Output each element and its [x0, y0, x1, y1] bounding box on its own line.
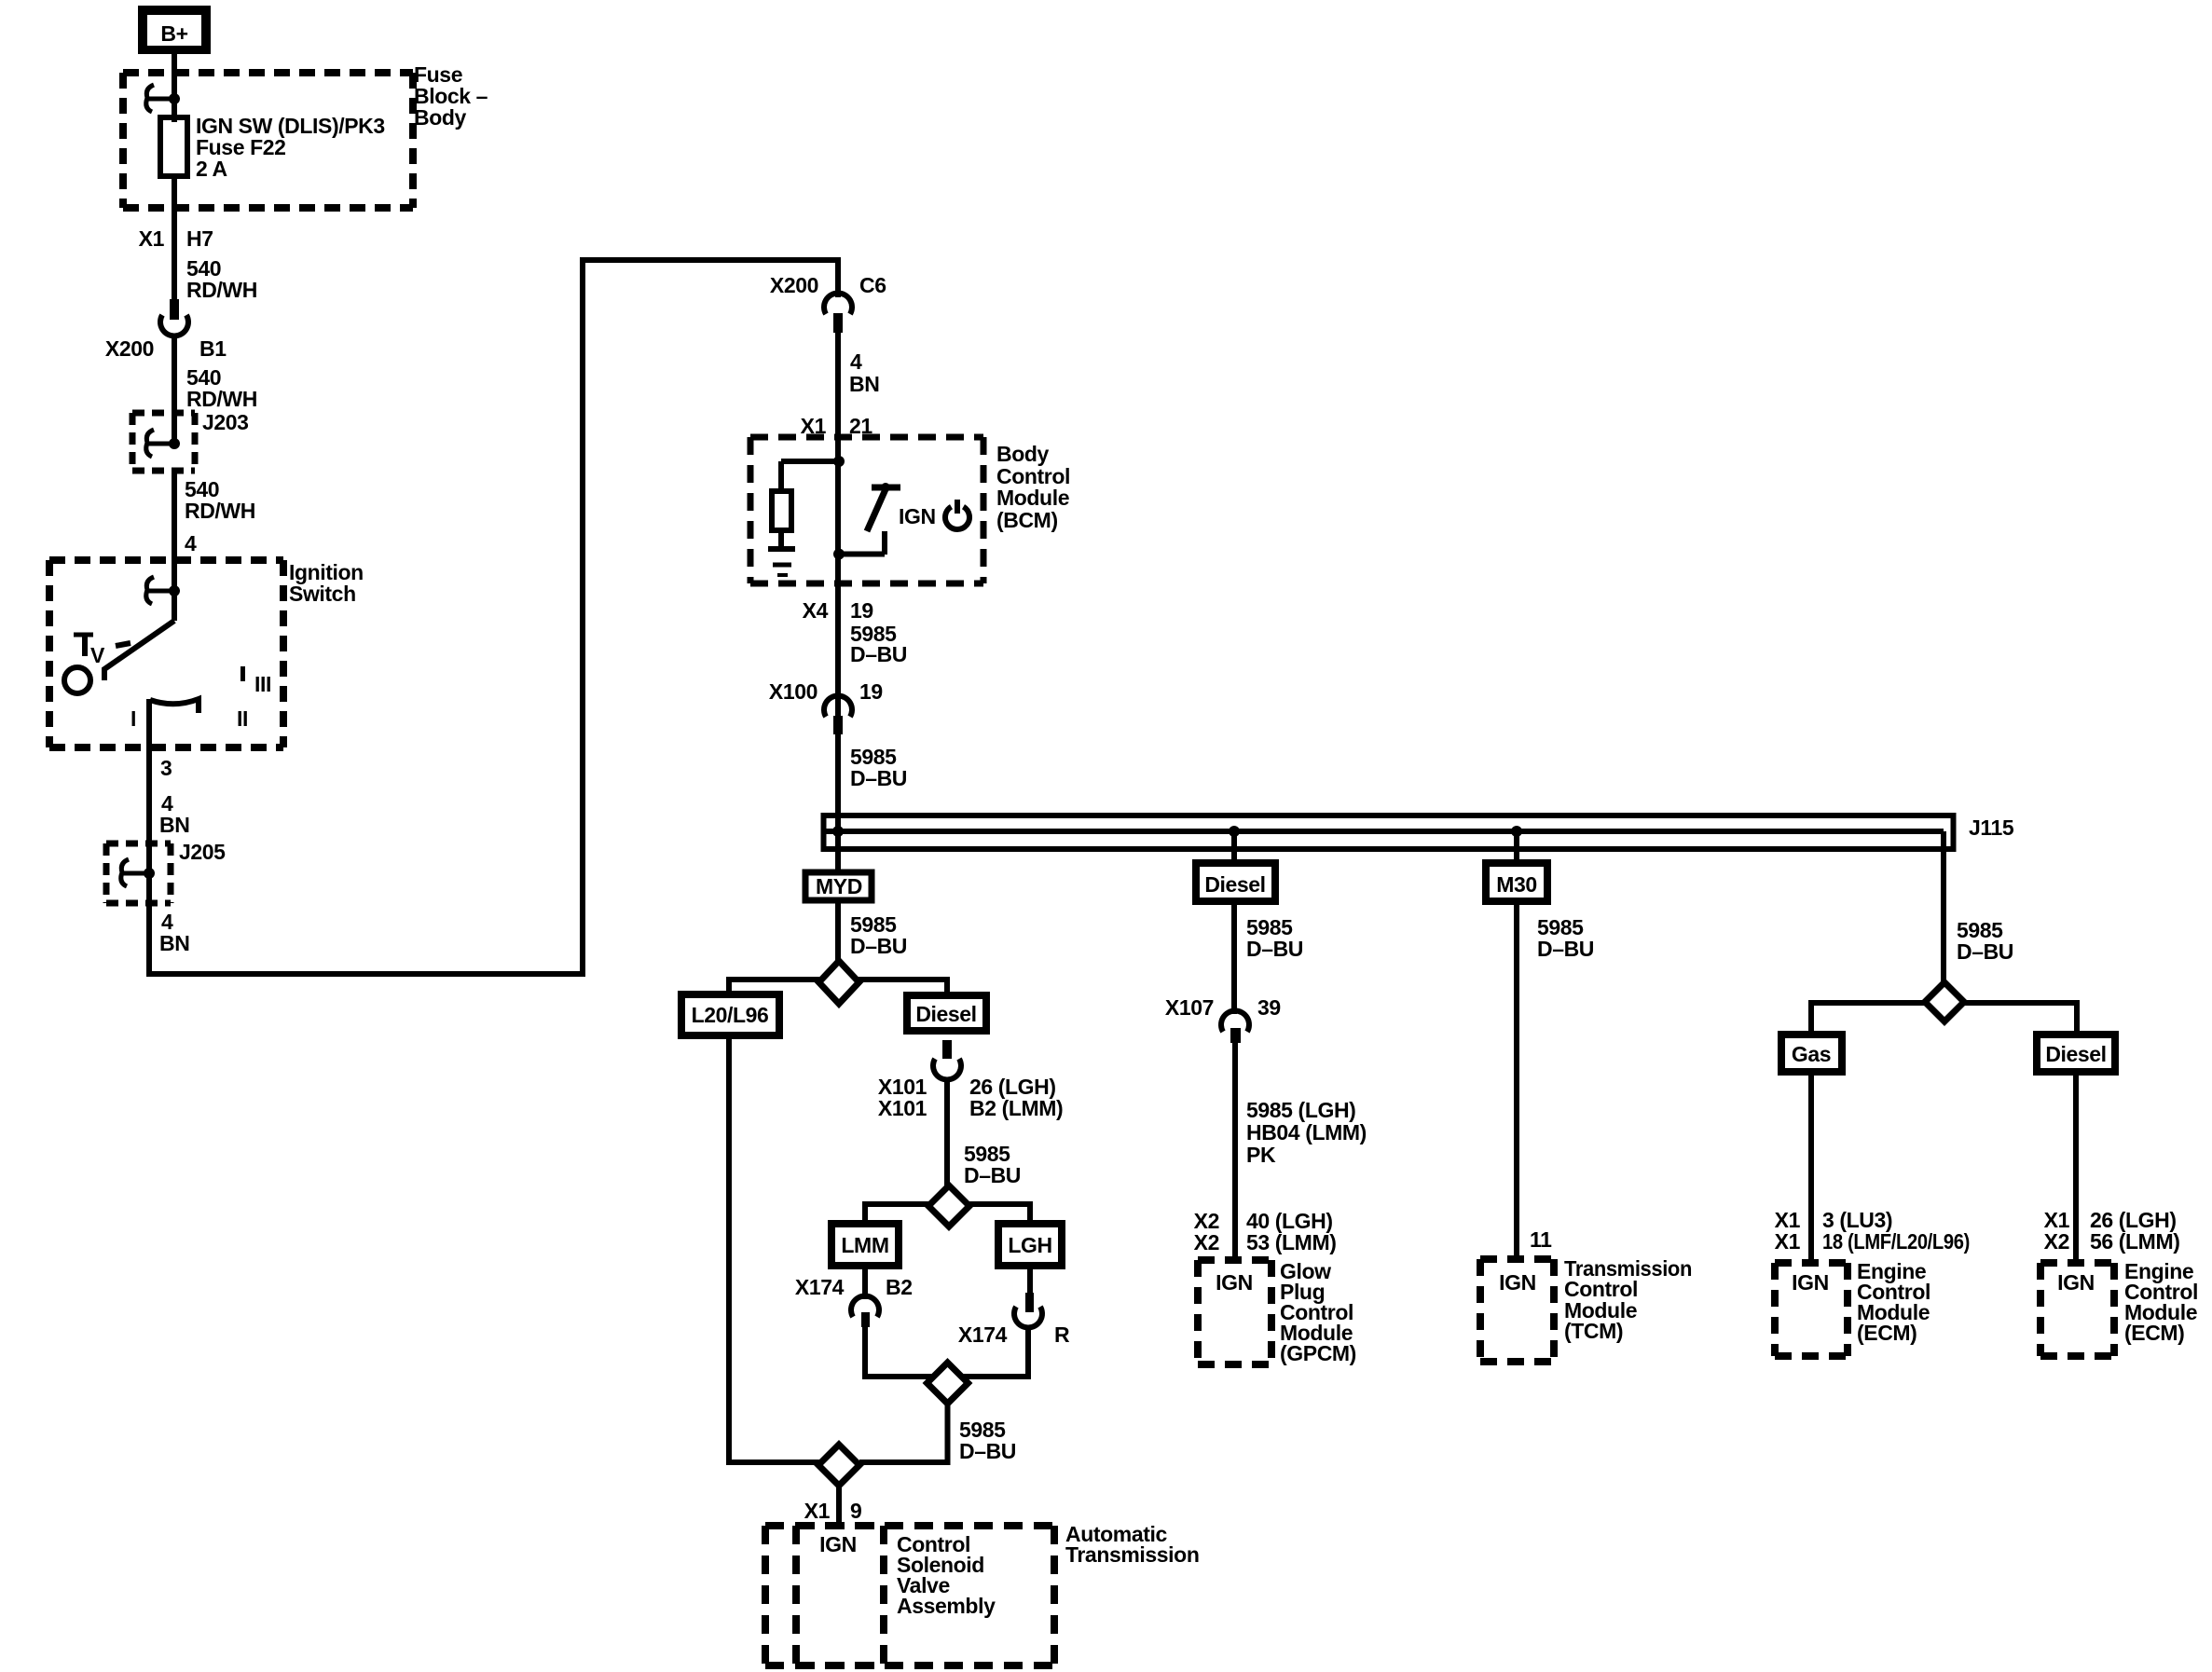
svg-text:Assembly: Assembly — [897, 1594, 996, 1618]
svg-text:IGN: IGN — [1499, 1270, 1536, 1295]
svg-text:II: II — [237, 706, 248, 731]
svg-text:R: R — [1054, 1323, 1070, 1347]
svg-text:19: 19 — [859, 679, 883, 704]
svg-text:LGH: LGH — [1008, 1233, 1051, 1257]
svg-text:Body: Body — [414, 105, 467, 130]
svg-text:J203: J203 — [202, 410, 249, 434]
svg-text:Gas: Gas — [1792, 1042, 1831, 1066]
svg-text:BN: BN — [849, 372, 879, 396]
svg-text:B2 (LMM): B2 (LMM) — [969, 1096, 1063, 1120]
svg-text:MYD: MYD — [816, 874, 862, 898]
svg-text:Body: Body — [996, 442, 1050, 466]
svg-text:III: III — [254, 672, 271, 696]
svg-text:Module: Module — [996, 486, 1069, 510]
svg-text:Diesel: Diesel — [2045, 1042, 2106, 1066]
svg-text:RD/WH: RD/WH — [186, 387, 257, 411]
svg-text:X200: X200 — [105, 336, 154, 361]
svg-text:BN: BN — [159, 813, 189, 837]
svg-text:X107: X107 — [1165, 995, 1214, 1020]
svg-text:4: 4 — [185, 531, 197, 555]
svg-text:X1: X1 — [139, 226, 165, 251]
svg-text:X1: X1 — [1775, 1229, 1801, 1254]
svg-text:M30: M30 — [1496, 872, 1537, 897]
svg-text:11: 11 — [1530, 1227, 1552, 1252]
svg-text:B+: B+ — [160, 21, 187, 46]
svg-text:RD/WH: RD/WH — [185, 499, 255, 523]
svg-text:Transmission: Transmission — [1065, 1542, 1199, 1567]
svg-text:D–BU: D–BU — [850, 766, 907, 790]
svg-text:(BCM): (BCM) — [996, 508, 1058, 532]
svg-text:18 (LMF/L20/L96): 18 (LMF/L20/L96) — [1822, 1229, 1970, 1254]
svg-text:D–BU: D–BU — [1537, 937, 1594, 961]
svg-text:(ECM): (ECM) — [2124, 1321, 2184, 1345]
svg-text:Diesel: Diesel — [1204, 872, 1265, 897]
svg-text:B1: B1 — [199, 336, 227, 361]
svg-text:D–BU: D–BU — [1957, 939, 2013, 964]
svg-text:X174: X174 — [958, 1323, 1008, 1347]
svg-text:(ECM): (ECM) — [1857, 1321, 1917, 1345]
svg-text:Switch: Switch — [289, 582, 356, 606]
svg-text:X174: X174 — [795, 1275, 845, 1299]
svg-text:C6: C6 — [859, 273, 886, 297]
svg-text:V: V — [90, 643, 105, 667]
svg-text:IGN: IGN — [1216, 1270, 1253, 1295]
svg-text:19: 19 — [850, 598, 873, 623]
svg-text:5985 (LGH): 5985 (LGH) — [1246, 1098, 1355, 1122]
svg-text:IGN: IGN — [819, 1532, 857, 1556]
svg-text:X2: X2 — [2044, 1229, 2069, 1254]
svg-text:(TCM): (TCM) — [1564, 1319, 1623, 1343]
svg-text:H7: H7 — [186, 226, 213, 251]
svg-text:D–BU: D–BU — [850, 934, 907, 958]
svg-text:HB04 (LMM): HB04 (LMM) — [1246, 1120, 1367, 1144]
svg-text:53 (LMM): 53 (LMM) — [1246, 1230, 1336, 1254]
svg-text:39: 39 — [1257, 995, 1281, 1020]
svg-text:X1: X1 — [804, 1499, 831, 1523]
svg-text:B2: B2 — [886, 1275, 913, 1299]
svg-text:IGN: IGN — [1792, 1270, 1829, 1295]
svg-text:D–BU: D–BU — [964, 1163, 1021, 1187]
svg-text:J115: J115 — [1969, 815, 2014, 840]
svg-text:D–BU: D–BU — [959, 1439, 1016, 1463]
svg-text:X100: X100 — [769, 679, 817, 704]
svg-text:D–BU: D–BU — [850, 642, 907, 666]
svg-text:X2: X2 — [1194, 1230, 1219, 1254]
svg-text:I: I — [131, 706, 136, 731]
svg-text:9: 9 — [850, 1499, 861, 1523]
svg-text:J205: J205 — [179, 840, 226, 864]
svg-text:X4: X4 — [803, 598, 829, 623]
svg-text:X101: X101 — [878, 1096, 927, 1120]
svg-text:4: 4 — [850, 349, 862, 374]
svg-text:BN: BN — [159, 931, 189, 955]
svg-text:2 A: 2 A — [196, 157, 227, 181]
svg-text:PK: PK — [1246, 1143, 1276, 1167]
svg-text:RD/WH: RD/WH — [186, 278, 257, 302]
svg-text:IGN: IGN — [899, 504, 936, 528]
svg-text:56 (LMM): 56 (LMM) — [2090, 1229, 2179, 1254]
svg-text:LMM: LMM — [841, 1233, 888, 1257]
svg-text:Diesel: Diesel — [915, 1002, 976, 1026]
svg-text:IGN: IGN — [2057, 1270, 2095, 1295]
svg-text:3: 3 — [160, 756, 172, 780]
svg-text:D–BU: D–BU — [1246, 937, 1303, 961]
svg-text:L20/L96: L20/L96 — [692, 1003, 769, 1027]
svg-text:(GPCM): (GPCM) — [1280, 1341, 1356, 1365]
svg-text:X200: X200 — [770, 273, 818, 297]
